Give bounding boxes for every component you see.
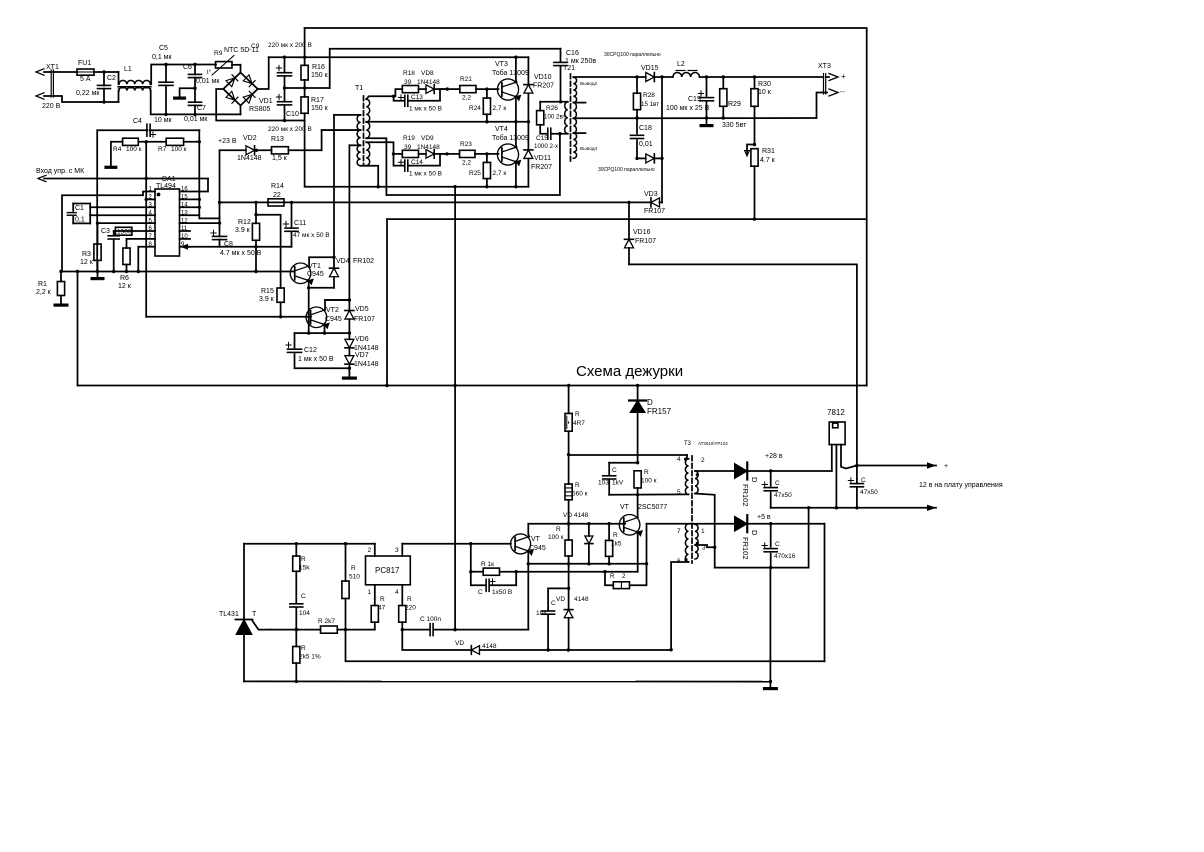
svg-text:R1: R1 <box>38 281 47 288</box>
svg-text:C3: C3 <box>101 228 110 235</box>
svg-text:510: 510 <box>349 574 360 581</box>
resistor R 560k <box>568 455 570 484</box>
capacitor C11 <box>291 202 293 227</box>
svg-text:R 1к: R 1к <box>481 561 494 568</box>
svg-text:1: 1 <box>701 528 705 535</box>
svg-text:C: C <box>861 477 866 484</box>
svg-text:R7: R7 <box>158 146 167 153</box>
bridge rectifier VD1 <box>223 73 257 106</box>
diode VD6 <box>345 339 354 348</box>
wire input to pin16 <box>44 178 208 180</box>
emitter aux line <box>528 563 646 565</box>
svg-text:D: D <box>750 477 759 483</box>
capacitor C13 parallel loop <box>394 96 405 101</box>
wire pin1 to R1 node <box>62 192 155 272</box>
svg-text:R21: R21 <box>460 76 472 83</box>
svg-text:RS805: RS805 <box>249 106 271 113</box>
+5 return wire <box>715 567 809 569</box>
standby opto base wire <box>402 543 511 545</box>
svg-text:R3: R3 <box>82 251 91 258</box>
wire x646 column <box>646 524 648 564</box>
T3 sec top bottom wire <box>695 494 715 568</box>
svg-text:C19: C19 <box>688 96 701 103</box>
T3 pin6 wire <box>671 562 688 650</box>
2SC5077 base wire <box>528 523 625 525</box>
wire -12 line R31 <box>387 218 867 220</box>
secondary ground bus <box>244 680 770 682</box>
svg-text:C945: C945 <box>307 271 324 278</box>
svg-text:0,01 мк: 0,01 мк <box>184 116 208 123</box>
capacitor C15 <box>547 128 549 139</box>
svg-text:--: -- <box>840 89 845 96</box>
svg-text:39: 39 <box>404 79 412 86</box>
resistor R1 <box>57 282 64 296</box>
TL494 right pin stubs <box>180 198 200 200</box>
node L1 to R18 <box>394 89 403 96</box>
T2 primary winding <box>565 102 568 134</box>
svg-text:1 мк 250в: 1 мк 250в <box>565 58 596 65</box>
svg-text:VD5: VD5 <box>355 306 369 313</box>
svg-text:R31: R31 <box>762 148 775 155</box>
svg-text:3.9 к: 3.9 к <box>235 227 251 234</box>
svg-text:1 мк x 50 В: 1 мк x 50 В <box>409 171 442 178</box>
wire R12 branch to R15 <box>256 215 281 288</box>
svg-text:4148: 4148 <box>482 643 497 650</box>
svg-text:C16: C16 <box>566 50 579 57</box>
svg-text:2,7 к: 2,7 к <box>493 170 507 177</box>
svg-text:R4: R4 <box>113 146 122 153</box>
svg-text:FU1: FU1 <box>78 60 91 67</box>
svg-text:DA1: DA1 <box>162 176 176 183</box>
diode VD 4148 standby vertical <box>568 588 570 609</box>
ground below C19 <box>706 118 708 124</box>
svg-text:VD4: VD4 <box>336 258 350 265</box>
resistor R14 <box>268 199 284 206</box>
svg-text:1: 1 <box>368 589 372 596</box>
svg-text:0,1: 0,1 <box>75 217 85 224</box>
wire FU1 to L1 <box>94 71 119 73</box>
svg-text:R: R <box>351 565 356 572</box>
resistor R15k <box>295 544 297 556</box>
wire bridge bottom vertex stub <box>240 106 242 115</box>
diode VD9 <box>419 153 427 155</box>
TL431 wire <box>243 544 245 620</box>
svg-text:2: 2 <box>368 547 372 554</box>
wire pin6 column joins <box>669 648 672 651</box>
T3 primary winding 4-5 <box>685 459 688 495</box>
svg-text:R6: R6 <box>120 275 129 282</box>
resistor R26 <box>539 102 541 111</box>
transistor VT1 <box>290 263 311 284</box>
svg-text:C14: C14 <box>411 159 423 166</box>
transformer T2 core <box>570 74 572 161</box>
resistor R17 <box>301 97 308 113</box>
VT4 emitter wire <box>514 161 517 186</box>
capacitor C19 <box>706 77 708 96</box>
svg-text:0,22 мк: 0,22 мк <box>76 90 100 97</box>
wire -12 corner <box>386 219 388 385</box>
T1 left winding <box>357 115 361 130</box>
2SC5077 emitter wire <box>637 532 638 572</box>
wire C2 to L1 lower <box>101 101 119 103</box>
T2 secondary winding2 <box>573 103 576 119</box>
diode D FR102 upper <box>735 464 748 479</box>
svg-text:C: C <box>775 480 780 487</box>
T1 winding C bottom wire to ground rail <box>366 166 378 187</box>
7812 legs <box>831 445 833 471</box>
resistor R4 <box>123 138 139 145</box>
resistor R 1k5 <box>608 524 610 541</box>
+12 control output wire <box>857 465 936 467</box>
svg-text:12 в на плату управления: 12 в на плату управления <box>919 482 1003 489</box>
svg-text:R: R <box>380 596 385 603</box>
svg-text:R: R <box>610 574 615 580</box>
capacitor C18 <box>636 118 638 133</box>
svg-text:VT3: VT3 <box>495 61 508 68</box>
svg-text:C2: C2 <box>107 75 116 82</box>
+310V rail wire <box>269 56 529 58</box>
wire XT1 bottom <box>53 96 101 102</box>
+5 feedback bus <box>346 630 825 662</box>
svg-text:Схема дежурки: Схема дежурки <box>576 363 683 380</box>
svg-text:1N4148: 1N4148 <box>354 361 379 368</box>
resistor R16 <box>301 65 308 80</box>
R14 +23V bus wire <box>220 201 630 203</box>
svg-text:+28 в: +28 в <box>765 453 783 460</box>
diode VD8 <box>419 88 427 90</box>
svg-text:39: 39 <box>404 144 412 151</box>
resistor R28 <box>636 77 638 93</box>
VT2 emitter line <box>295 332 350 334</box>
svg-text:5: 5 <box>677 489 681 496</box>
svg-text:C: C <box>775 541 780 548</box>
R4R7 column top wire <box>568 386 570 414</box>
resistor R23 <box>460 150 476 157</box>
wire VD16 to 7812 column <box>629 264 857 483</box>
svg-text:АТ3016\ТР102: АТ3016\ТР102 <box>698 441 728 446</box>
diode VD2 <box>246 146 255 155</box>
ground output line <box>771 507 936 509</box>
svg-text:FR207: FR207 <box>531 164 552 171</box>
svg-text:+: + <box>944 463 948 470</box>
T2 tap stub 3 <box>573 132 585 134</box>
svg-text:R 2k7: R 2k7 <box>318 618 335 625</box>
svg-text:16: 16 <box>181 187 188 193</box>
VT1 emitter wire <box>308 280 309 288</box>
svg-text:VD16: VD16 <box>633 229 651 236</box>
svg-text:10 мк: 10 мк <box>154 117 173 124</box>
resistor R510 <box>345 544 347 581</box>
svg-text:R9: R9 <box>214 50 223 57</box>
svg-text:R: R <box>407 596 412 603</box>
wire 100k node down <box>568 564 570 589</box>
resistor R25 <box>485 152 488 155</box>
svg-text:R24: R24 <box>469 105 481 112</box>
svg-text:2SC5077: 2SC5077 <box>638 504 667 511</box>
svg-text:T: T <box>252 611 257 618</box>
VT C945 collector wire <box>527 524 530 537</box>
svg-text:3.9 к: 3.9 к <box>259 296 275 303</box>
svg-text:L2: L2 <box>677 61 685 68</box>
svg-text:104: 104 <box>536 610 547 617</box>
svg-text:100 к: 100 к <box>641 478 657 485</box>
svg-text:C13: C13 <box>411 94 423 101</box>
wire L1 upper out to top node <box>151 65 217 85</box>
svg-text:C5: C5 <box>159 45 168 52</box>
svg-text:C 100n: C 100n <box>420 616 441 623</box>
resistor R18 <box>402 86 418 93</box>
top +310 frame wire <box>305 28 867 386</box>
svg-text:4: 4 <box>677 456 681 463</box>
TL494 left pin stubs <box>146 198 155 200</box>
svg-text:R12: R12 <box>238 219 251 226</box>
svg-text:4.7 к: 4.7 к <box>760 157 776 164</box>
PC817 pin1 wire resistor R47 <box>374 585 376 606</box>
svg-text:C945: C945 <box>529 545 546 552</box>
svg-text:104: 104 <box>299 610 310 617</box>
svg-text:FR207: FR207 <box>533 83 554 90</box>
wire main vertical to opto line <box>454 187 456 630</box>
svg-text:4: 4 <box>395 589 399 596</box>
svg-text:PC817: PC817 <box>375 566 400 575</box>
capacitor C8 <box>213 235 227 237</box>
wire R4R7 to T3 pin4 <box>569 454 687 456</box>
svg-text:Тоба 13009: Тоба 13009 <box>492 134 529 142</box>
ground bus wire <box>61 271 295 273</box>
svg-text:100 мк x 25 В: 100 мк x 25 В <box>666 105 710 112</box>
pin9 feedback wire <box>184 246 292 248</box>
diode D FR157 <box>637 386 639 400</box>
capacitor C5 <box>159 81 173 83</box>
svg-text:VD15: VD15 <box>641 65 659 72</box>
capacitor C2 <box>98 84 111 86</box>
svg-text:3: 3 <box>395 547 399 554</box>
TL431 ref wire <box>253 621 271 630</box>
svg-text:R14: R14 <box>271 183 284 190</box>
svg-text:R23: R23 <box>460 141 472 148</box>
svg-text:15k: 15k <box>299 565 310 572</box>
svg-text:1k5: 1k5 <box>611 541 622 548</box>
svg-text:47x50: 47x50 <box>860 489 878 496</box>
svg-text:R29: R29 <box>728 101 741 108</box>
capacitor C7 <box>189 101 202 103</box>
thermistor R9 NTC <box>216 62 233 68</box>
svg-text:47: 47 <box>378 605 386 612</box>
T1 right winding A <box>366 99 370 122</box>
svg-text:R15: R15 <box>261 288 274 295</box>
svg-text:2,2: 2,2 <box>462 160 471 167</box>
svg-text:R: R <box>613 532 618 539</box>
capacitor C9 <box>278 72 292 74</box>
wire R17 to primary ground line <box>305 121 529 187</box>
svg-text:L1: L1 <box>124 66 132 73</box>
svg-text:FR102: FR102 <box>353 258 374 265</box>
capacitor C4 <box>146 124 148 136</box>
svg-text:0,01: 0,01 <box>639 141 653 148</box>
VT3 emitter wire <box>514 96 517 121</box>
diode VD15 <box>637 76 646 78</box>
PC817 top line <box>244 543 375 545</box>
VT2 collector wire <box>325 300 349 310</box>
T1 right winding C <box>366 142 370 166</box>
T3 aux winding 7-6 <box>685 524 688 562</box>
resistor R 100k snubber <box>634 471 641 488</box>
svg-text:R17: R17 <box>311 97 324 104</box>
control box outline C4 line <box>97 130 147 272</box>
wire R4R7 node down to pin2 <box>145 142 147 179</box>
T2 top tap wire <box>573 76 637 78</box>
wire bridge minus to C10 bottom rail <box>216 89 304 121</box>
ground below VD7 <box>348 373 350 377</box>
node L2 to R19 <box>394 153 403 155</box>
svg-text:7812: 7812 <box>827 408 845 417</box>
ground symbol standby <box>769 682 771 687</box>
svg-text:15 1вт: 15 1вт <box>641 101 659 108</box>
T2 return wire down <box>386 134 560 195</box>
svg-text:FR107: FR107 <box>354 316 375 323</box>
svg-text:22: 22 <box>273 192 281 199</box>
wire VD16 column <box>628 202 630 239</box>
svg-text:FR157: FR157 <box>647 407 672 416</box>
resistor R30 <box>754 77 756 89</box>
resistor R 1k loop <box>470 544 472 572</box>
svg-text:12 к: 12 к <box>118 283 132 290</box>
svg-text:T1: T1 <box>355 85 363 92</box>
svg-text:FR107: FR107 <box>644 208 665 215</box>
svg-text:R25: R25 <box>469 170 481 177</box>
wire to pin2 and down to VT2 base line <box>145 179 147 317</box>
svg-text:VT: VT <box>620 504 630 511</box>
svg-text:C18: C18 <box>639 125 652 132</box>
transformer T1 core <box>363 96 365 165</box>
resistor R 2 loop <box>605 572 613 586</box>
svg-text:47 мк x 50 В: 47 мк x 50 В <box>293 232 330 239</box>
svg-text:1N4148: 1N4148 <box>354 345 379 352</box>
resistor R2k7 <box>321 626 338 633</box>
svg-text:1N4148: 1N4148 <box>417 144 440 151</box>
+12V output wire <box>700 76 824 78</box>
svg-text:C12: C12 <box>304 347 317 354</box>
wire C4 to R7 right <box>198 130 200 142</box>
optocoupler PC817 <box>366 556 411 585</box>
snubber loop bottom to pin5 <box>609 493 688 495</box>
svg-text:VT4: VT4 <box>495 126 508 133</box>
resistor R7 <box>166 138 183 145</box>
svg-text:470x16: 470x16 <box>774 553 796 560</box>
svg-text:100 к: 100 к <box>171 146 187 153</box>
transistor VT C945 standby <box>511 534 531 554</box>
+28V rectifier wire <box>695 470 735 472</box>
trimmer R31 <box>751 149 758 167</box>
capacitor C12 <box>294 333 296 347</box>
capacitor C10 <box>278 101 292 103</box>
svg-text:2: 2 <box>701 457 705 464</box>
0V return wire <box>573 117 816 119</box>
T3 pin3 tap wire <box>695 545 715 547</box>
VT3 collector wire <box>515 57 518 82</box>
inductor L1 common-mode choke <box>118 72 120 84</box>
svg-text:1500: 1500 <box>117 229 132 236</box>
svg-text:1000 2-х: 1000 2-х <box>534 143 559 150</box>
resistor R24 <box>485 87 488 90</box>
connector XT1 <box>50 70 52 97</box>
diode VD4 <box>333 115 335 268</box>
VT2 base wire <box>146 316 311 318</box>
capacitor C16 <box>560 49 562 62</box>
svg-text:1,5 к: 1,5 к <box>272 155 288 162</box>
wire bridge plus up to +310 rail <box>258 57 269 89</box>
svg-text:t°: t° <box>207 70 212 76</box>
T3 secondary bottom winding <box>695 524 698 559</box>
svg-text:XT1: XT1 <box>46 64 59 71</box>
T1 winding B bottom wire to T2 return <box>366 138 386 195</box>
svg-text:C11: C11 <box>294 220 306 227</box>
T2 secondary winding4 <box>573 133 576 158</box>
svg-text:+5 в: +5 в <box>757 514 771 521</box>
ground below R3 <box>97 271 99 277</box>
capacitor C1 with label box <box>73 203 90 205</box>
diode D FR102 lower <box>735 516 748 531</box>
+5V rectifier wire <box>647 523 735 525</box>
svg-text:0,01 мк: 0,01 мк <box>196 78 220 85</box>
transformer T3 core <box>691 456 693 563</box>
svg-text:1 мк x 50 В: 1 мк x 50 В <box>409 106 442 113</box>
svg-text:2,2: 2,2 <box>462 95 471 102</box>
wire L1 lower out to bottom node <box>151 91 241 115</box>
svg-text:C15: C15 <box>536 135 548 142</box>
svg-text:4148: 4148 <box>574 596 589 603</box>
svg-text:VD10: VD10 <box>534 74 552 81</box>
svg-text:R30: R30 <box>758 81 771 88</box>
T2 secondary winding3 <box>573 118 576 133</box>
diode VD7 <box>345 356 354 365</box>
IC DA1 TL494 body <box>155 189 180 256</box>
svg-text:C4: C4 <box>133 118 142 125</box>
svg-text:FR102: FR102 <box>741 537 750 560</box>
svg-text:VD: VD <box>556 596 565 603</box>
resistor R13 <box>272 147 289 154</box>
svg-text:VD8: VD8 <box>421 70 434 77</box>
svg-text:C: C <box>478 589 483 596</box>
diode VD11 <box>527 122 529 150</box>
diode VD16 <box>625 238 634 240</box>
svg-text:R26: R26 <box>546 105 558 112</box>
svg-text:VD6: VD6 <box>355 336 369 343</box>
svg-text:330 5вт: 330 5вт <box>722 122 747 129</box>
wire XT1 to FU1 <box>53 71 77 73</box>
transistor VT2 <box>306 307 327 328</box>
resistor R2k5 <box>295 630 297 647</box>
svg-text:R18: R18 <box>403 70 415 77</box>
svg-text:C: C <box>612 467 617 474</box>
capacitor C3 <box>113 231 115 235</box>
svg-text:2k5 1%: 2k5 1% <box>299 654 321 661</box>
T3 secondary top winding <box>695 471 698 494</box>
svg-text:1 мк x 50 В: 1 мк x 50 В <box>298 356 334 363</box>
T1 left bottom wire <box>361 165 368 167</box>
wire midpoint to half-bridge rail <box>330 49 561 88</box>
VT1 collector wire <box>309 257 334 266</box>
VT4 collector wire <box>515 122 518 147</box>
PC817 pin2 wire <box>374 544 376 556</box>
svg-text:D: D <box>647 398 653 407</box>
svg-text:+: + <box>841 72 846 81</box>
capacitor C 103 1kV <box>608 463 610 475</box>
capacitor C104 standby <box>547 615 549 650</box>
svg-text:R16: R16 <box>312 64 325 71</box>
diode VD5 <box>348 145 350 310</box>
2SC5077 collector wire <box>637 495 639 518</box>
